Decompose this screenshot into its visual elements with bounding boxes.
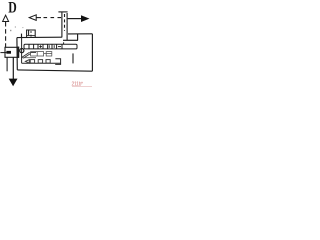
pilot cap box on top edge — [27, 30, 36, 37]
port step at top right — [63, 39, 78, 41]
down solid arrow — [9, 79, 18, 87]
left pilot valve box — [0, 47, 18, 58]
right solid arrow — [68, 18, 82, 20]
lines below left box — [6, 57, 8, 71]
stub on top edge — [21, 34, 23, 38]
inner left vertical line — [21, 38, 23, 64]
short inner vertical — [72, 53, 74, 63]
component A: vertical valve body top middle — [58, 12, 67, 40]
row3 small boxes on bottom inner line — [25, 60, 50, 64]
solenoid diagonal arrows — [21, 52, 36, 58]
faint specks — [10, 30, 11, 31]
small circle on inner line — [20, 49, 24, 53]
up arrow (open head, drain line) — [3, 15, 9, 21]
dashed vertical pilot line — [5, 22, 7, 47]
left open arrow with dashed line — [29, 15, 36, 21]
inner bottom line — [22, 62, 61, 64]
svg-text:D: D — [8, 0, 17, 16]
bracket shape right of row3 — [55, 59, 60, 65]
middle faint boxes row2 — [22, 52, 52, 58]
main spool row (long valve) — [24, 42, 77, 49]
big enclosure rectangle — [17, 34, 93, 72]
